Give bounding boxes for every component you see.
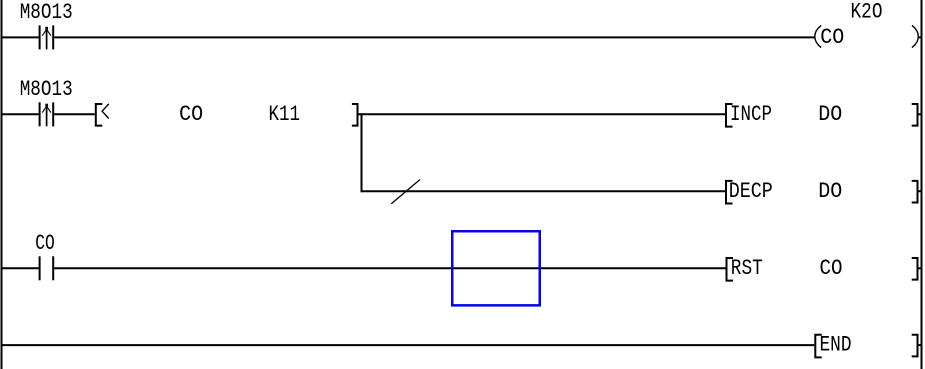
svg-text:CO: CO — [820, 25, 844, 50]
svg-text:INCP: INCP — [730, 102, 772, 127]
svg-text:M8O13: M8O13 — [20, 77, 73, 102]
svg-text:CO: CO — [35, 231, 55, 256]
svg-text:CO: CO — [820, 256, 843, 281]
svg-text:K11: K11 — [269, 102, 301, 127]
svg-text:DO: DO — [818, 102, 842, 127]
svg-text:DO: DO — [818, 179, 842, 204]
svg-text:END: END — [820, 333, 852, 358]
svg-text:CO: CO — [179, 102, 203, 127]
svg-text:RST: RST — [731, 256, 763, 281]
svg-text:DECP: DECP — [729, 179, 773, 204]
svg-text:M8O13: M8O13 — [20, 0, 73, 25]
svg-text:K2O: K2O — [851, 0, 883, 24]
